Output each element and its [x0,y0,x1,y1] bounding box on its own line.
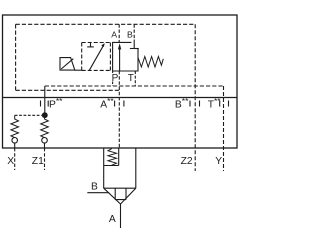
solenoid U1 [60,58,75,71]
wire: A pilot line up [118,24,120,42]
check valve Z1 ball [42,138,48,144]
poppet seat box [115,188,126,199]
svg-text:B: B [91,181,98,192]
wire: port A line down [120,204,122,228]
cartridge poppet cone [104,188,136,204]
svg-text:X: X [7,156,14,167]
wire: solenoid to valve [75,69,82,71]
svg-text:A: A [109,214,116,225]
check valve X ball [12,138,18,144]
return spring [138,57,163,68]
pilot enclosure dashed bottom [16,89,120,91]
svg-text:Z1: Z1 [32,156,44,167]
cartridge valve body [104,148,136,189]
wire: T stub down [134,71,136,86]
svg-text:Z2: Z2 [181,156,193,167]
cartridge spring box [104,148,119,166]
housing divider (block top edge) [3,97,238,99]
outer housing border [3,15,238,148]
solenoid diagonal stroke [61,59,73,69]
pilot enclosure dashed left [15,24,17,90]
wire: X down [14,143,16,148]
port B** marks [189,101,191,107]
svg-text:B: B [127,29,133,39]
wire: B** / Z2 vertical dashed [194,24,196,171]
svg-text:T: T [128,73,134,84]
wire: A** pilot line down to cartridge [118,71,120,148]
wire: P stub down [112,71,114,73]
flow arrow P to A in right square [119,48,121,71]
B port stub into square [133,40,135,49]
pilot valve left position square (dashed, actuated) [82,43,111,71]
flow arrow in left square [89,45,103,70]
cartridge spring [108,149,117,166]
port T** marks [219,101,221,107]
wire: supply riser to node [44,86,46,115]
check valve Z1 spring [41,118,49,138]
node junction dot [42,112,48,118]
port A** marks [114,101,116,107]
pilot enclosure dashed top [16,23,195,25]
wire: pilot supply / drain dashed line [45,85,224,87]
seat step bar [130,48,139,50]
svg-text:Y: Y [215,156,222,167]
check valve X spring [11,115,19,137]
port P** marks [40,101,42,107]
wire: B pilot line up [133,24,135,39]
svg-text:A: A [111,29,117,39]
wire: X to node dashed connector [15,114,42,116]
wire: Y drain vertical dashed [223,86,225,171]
pilot valve right position square (rest) [113,42,138,71]
wire: port B line [87,192,109,194]
wire: Z1 down [44,143,46,148]
blocked port in left square [90,43,92,47]
